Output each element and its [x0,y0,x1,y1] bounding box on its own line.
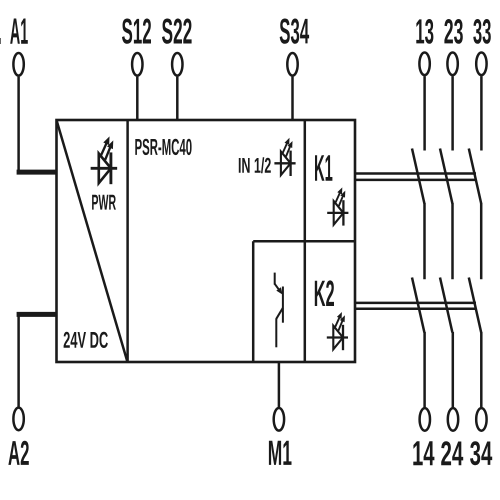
terminal S22 [172,53,182,76]
wire bottom channel 3 [480,332,483,408]
terminal 24 [448,408,458,431]
LED IN1/2 [274,138,295,176]
terminal S34 [287,53,297,76]
terminal A2 [13,408,23,431]
transistor output symbol [275,273,283,348]
label A2 [8,441,28,465]
wire bottom channel 1 [423,332,426,408]
terminal 34 [476,408,486,431]
main relay body outline [57,120,356,362]
contact K1 channel 2 [440,149,452,204]
terminal 23 [447,53,457,76]
power section diagonal [57,120,128,361]
transistor arrow head [276,287,282,294]
wire 13 [423,76,426,150]
wire A2 horizontal [17,312,57,317]
wire mid channel 1 [423,203,426,279]
wire mid channel 2 [451,203,454,279]
wire A1 vertical [17,77,20,172]
contact K2 channel 2 [440,278,452,333]
wire A1 horizontal [17,170,57,175]
wire S22 [176,77,179,121]
label K1 [315,155,332,181]
divider output box top [253,240,355,243]
label 23 [444,19,462,44]
divider K column [304,120,307,362]
LED K2 [327,312,348,350]
terminal 13 [419,53,429,76]
label PSR-MC40 [135,139,191,155]
K1 mechanical link line 2 [355,179,476,182]
label S12 [122,19,151,44]
label 33 [473,19,491,44]
K2 mechanical link line 2 [355,307,476,310]
wire S12 [136,77,139,121]
label 24 [441,441,463,465]
label S34 [280,19,309,44]
wire M1 [278,361,281,408]
LED K1 [327,187,348,225]
terminal 14 [420,408,430,431]
terminal M1 [274,408,284,431]
divider output box left [252,241,255,362]
contact K2 channel 3 [469,278,481,333]
contact K1 channel 1 [412,149,424,204]
divider PWR section [126,120,129,362]
label 14 [413,441,434,465]
terminal S12 [132,53,142,76]
terminal 33 [476,53,486,76]
edge artifact [0,38,1,44]
K2 mechanical link line 1 [355,302,476,305]
label A1 [10,19,28,44]
LED PWR [91,136,118,184]
label 13 [416,19,433,44]
label 24V DC [64,332,108,348]
K1 mechanical link line 1 [355,172,476,175]
contact K2 channel 1 [412,278,424,333]
wire mid channel 3 [480,203,483,279]
wire 23 [451,76,454,150]
label 34 [470,441,492,465]
label M1 [269,441,292,465]
wire S34 [291,77,294,121]
label IN 1/2 [239,157,271,173]
wire bottom channel 2 [452,332,455,408]
terminal A1 [13,53,23,76]
label S22 [162,19,192,44]
contact K1 channel 3 [469,149,481,204]
wire A2 vertical [17,314,20,407]
label K2 [315,280,334,306]
wire 33 [480,76,483,150]
label PWR [92,195,116,210]
